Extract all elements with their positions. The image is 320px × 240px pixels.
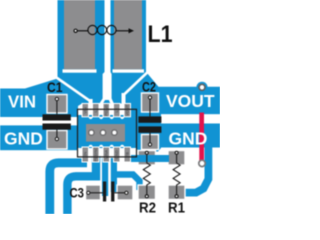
pad C2.1: [142, 93, 159, 112]
pad C1.2: [47, 131, 67, 150]
wire VOUT(red, bottom layer) via to R1 bottom trace: [183, 146, 208, 193]
wire PS/SYNC elbow trace to board edge: [67, 156, 96, 214]
svg-text:VIN: VIN: [8, 92, 36, 112]
svg-text:GND: GND: [114, 150, 119, 159]
svg-text:PS/SYNC: PS/SYNC: [94, 147, 98, 162]
svg-text:VOUT: VOUT: [124, 104, 129, 116]
via thermal 3: [112, 130, 117, 135]
inductor pad L1.2: [114, 0, 142, 69]
via VOUT bar: [199, 84, 205, 90]
via VOUT bar copper bump: [196, 82, 207, 93]
clearance gap A (center split between L1/L2 columns): [105, 0, 111, 74]
pin pad U1.6 EN: [82, 147, 89, 162]
svg-text:VINA: VINA: [103, 150, 108, 160]
wire pad5 to VOUT plane: [128, 104, 138, 118]
clearance gap C (SW / VOUT diagonal): [123, 72, 148, 95]
clearance gap A right fork: [108, 99, 114, 104]
pin pad U1.10 FB: [124, 147, 131, 162]
pin pad U1.2 L1: [93, 104, 100, 117]
wire GND branch to R2 bottom: [113, 175, 140, 191]
node VOUT/C2 column copper: [136, 87, 161, 152]
clearance arcs inside U1 bottom: [89, 145, 125, 147]
clearance under left inductor pad: [63, 69, 97, 72]
svg-text:C3: C3: [70, 185, 85, 201]
capacitor C2 symbol: [138, 96, 161, 146]
pin pad U1.8 VINA: [103, 147, 110, 162]
pin pad U1.9 GND: [114, 147, 121, 162]
pin pad U1.7 PS/SYNC: [93, 147, 100, 162]
svg-text:R2: R2: [139, 201, 156, 215]
pin pad U1.1 VIN: [82, 104, 89, 117]
pad C2.2: [142, 135, 159, 150]
svg-text:GND: GND: [169, 128, 208, 148]
node VIN copper plane (left bar + flare): [0, 79, 88, 118]
svg-text:L2: L2: [114, 107, 119, 112]
node GND copper (right bottom bar): [136, 123, 220, 147]
capacitor C3 symbol: [87, 182, 128, 202]
pin pad U1.5 VOUT: [124, 104, 131, 117]
pad C3.2: [117, 185, 133, 200]
clearance VOUT/GND bar gap (right): [161, 114, 220, 123]
trace VOUT feedback (red bottom layer): [199, 113, 204, 164]
svg-text:L1: L1: [93, 107, 98, 112]
svg-text:VIN: VIN: [82, 107, 87, 114]
clearance gap B (VIN / SW diagonal): [56, 77, 90, 101]
via thermal 2: [100, 130, 105, 135]
wire FB to R2.1/R1.1: [127, 155, 169, 162]
pad R1.1: [168, 151, 185, 166]
thermal pad U1: [86, 124, 125, 142]
svg-text:C2: C2: [142, 79, 156, 95]
clearance gap A left fork: [99, 99, 106, 104]
pin pad U1.3 PGND: [103, 104, 110, 117]
via thermal 1: [89, 130, 94, 135]
U1 courtyard outline: [78, 109, 137, 157]
node SW copper (top mass around L1 pads): [58, 0, 147, 104]
resistor R1 symbol: [173, 151, 180, 198]
svg-text:L1: L1: [148, 21, 173, 48]
clearance under right inductor pad: [113, 69, 145, 72]
wire GND pin to C3 right: [111, 158, 117, 192]
capacitor C1 symbol: [43, 97, 71, 140]
U1 interior copper: [78, 115, 137, 148]
inductor L1 symbol: [74, 25, 134, 34]
pad R2.1: [138, 151, 156, 166]
node VOUT copper (right bar + slope): [124, 73, 220, 114]
resistor R2 symbol: [143, 151, 150, 198]
via feedback: [199, 160, 205, 166]
svg-text:GND: GND: [4, 128, 43, 148]
pad C3.1: [86, 185, 101, 200]
svg-text:VOUT: VOUT: [166, 91, 215, 111]
svg-text:R1: R1: [168, 201, 185, 215]
wire EN elbow trace to board edge: [50, 163, 87, 214]
inductor pad L1.1: [64, 0, 95, 69]
node GND copper (left bottom bar): [0, 125, 78, 150]
pin pad U1.4 L2: [114, 104, 121, 117]
pad R2.2: [138, 185, 156, 200]
svg-text:PGND: PGND: [103, 104, 108, 116]
svg-text:C1: C1: [47, 79, 63, 95]
clearance arcs inside U1 top: [89, 117, 125, 119]
pad C1.1: [47, 95, 67, 114]
pad R1.2: [168, 185, 185, 200]
svg-text:EN: EN: [82, 152, 87, 158]
svg-text:FB: FB: [124, 152, 129, 157]
wire VINA to C3 left: [102, 158, 108, 196]
board background: [0, 0, 220, 214]
